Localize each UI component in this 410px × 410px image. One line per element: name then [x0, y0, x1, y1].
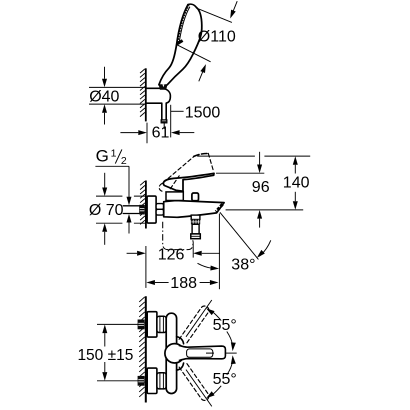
hand shower handle and head outline — [159, 4, 202, 85]
dimension 126 (wall to hose outlet) — [127, 242, 220, 264]
lever boss (plan) — [165, 344, 184, 363]
svg-text:G: G — [96, 147, 109, 166]
hand shower handle cone (dark) — [159, 84, 168, 90]
spout silhouette behind lever — [177, 337, 184, 371]
union nut (upper) — [157, 316, 166, 332]
svg-text:126: 126 — [158, 247, 185, 264]
lever rotated 55° up (dashed) — [179, 306, 209, 344]
G1/2 supply pipe stub in wall — [123, 205, 145, 215]
lever handle raised position (dashed) — [159, 153, 213, 191]
label 1500 (hose length) — [171, 104, 221, 121]
angle arc arrows 55° upper — [205, 306, 237, 351]
svg-text:150 ±15: 150 ±15 — [77, 347, 133, 364]
dimension Ø70 (escutcheon) — [89, 173, 145, 245]
wall (middle view) — [140, 181, 146, 229]
dimension 188 (wall to spout tip) — [146, 214, 220, 293]
svg-text:96: 96 — [252, 179, 270, 196]
escutcheon (lower) — [147, 368, 157, 393]
shower hose — [161, 103, 167, 129]
dimension 96 (lever to outlet) — [216, 152, 303, 228]
cartridge cap — [166, 192, 183, 201]
union nut (lower) — [157, 373, 166, 389]
supply fitting in wall (upper) — [138, 320, 145, 330]
svg-text:140: 140 — [283, 175, 310, 192]
shower hose outlet below spout — [191, 215, 201, 239]
svg-text:Ø 70: Ø 70 — [89, 202, 124, 219]
svg-text:38°: 38° — [231, 256, 255, 273]
hose connection path (dash-dot) — [163, 222, 193, 250]
svg-text:Ø110: Ø110 — [198, 28, 236, 45]
svg-text:188: 188 — [170, 275, 197, 292]
wall (bottom view) — [139, 296, 146, 402]
angle arc arrows 55° lower — [205, 355, 237, 400]
dimension 150 ±15 (connection spacing) — [77, 324, 138, 380]
supply fitting in wall (lower) — [138, 376, 145, 386]
lever axis reference line — [226, 352, 237, 354]
lever arm (plan) — [179, 345, 226, 360]
svg-text:1500: 1500 — [185, 104, 221, 121]
diverter knob on spout — [192, 193, 199, 201]
rotation axis line up — [186, 300, 212, 337]
mixer body and spout — [164, 201, 224, 218]
dimension 140 (raised lever to outlet) — [197, 156, 310, 210]
union nut (side view) — [156, 204, 164, 216]
lever rotated 55° down (dashed) — [179, 362, 209, 400]
svg-text:1: 1 — [111, 147, 117, 159]
svg-text:Ø40: Ø40 — [89, 89, 119, 106]
svg-text:55°: 55° — [213, 371, 237, 388]
dimension 61 (wall to bracket front) — [120, 105, 194, 143]
label G 1/2 (thread) — [95, 147, 131, 234]
escutcheon (side view) — [147, 196, 156, 223]
dimension Ø40 (bracket) — [89, 67, 145, 125]
rotation axis line down — [186, 370, 212, 407]
dimension Ø110 (shower head) — [177, 1, 237, 81]
svg-text:61: 61 — [152, 125, 170, 142]
lever handle (solid position) — [163, 173, 214, 192]
dimension 38° (spout outlet angle) — [198, 212, 271, 273]
wall (top view) — [140, 68, 146, 121]
escutcheon (upper) — [147, 312, 157, 337]
svg-text:2: 2 — [121, 155, 127, 167]
shower bracket escutcheon — [147, 88, 171, 103]
mixer body bar (plan) — [166, 313, 176, 393]
svg-text:55°: 55° — [213, 317, 237, 334]
shower head spray face — [177, 5, 189, 45]
spout aerator tip — [216, 204, 223, 212]
